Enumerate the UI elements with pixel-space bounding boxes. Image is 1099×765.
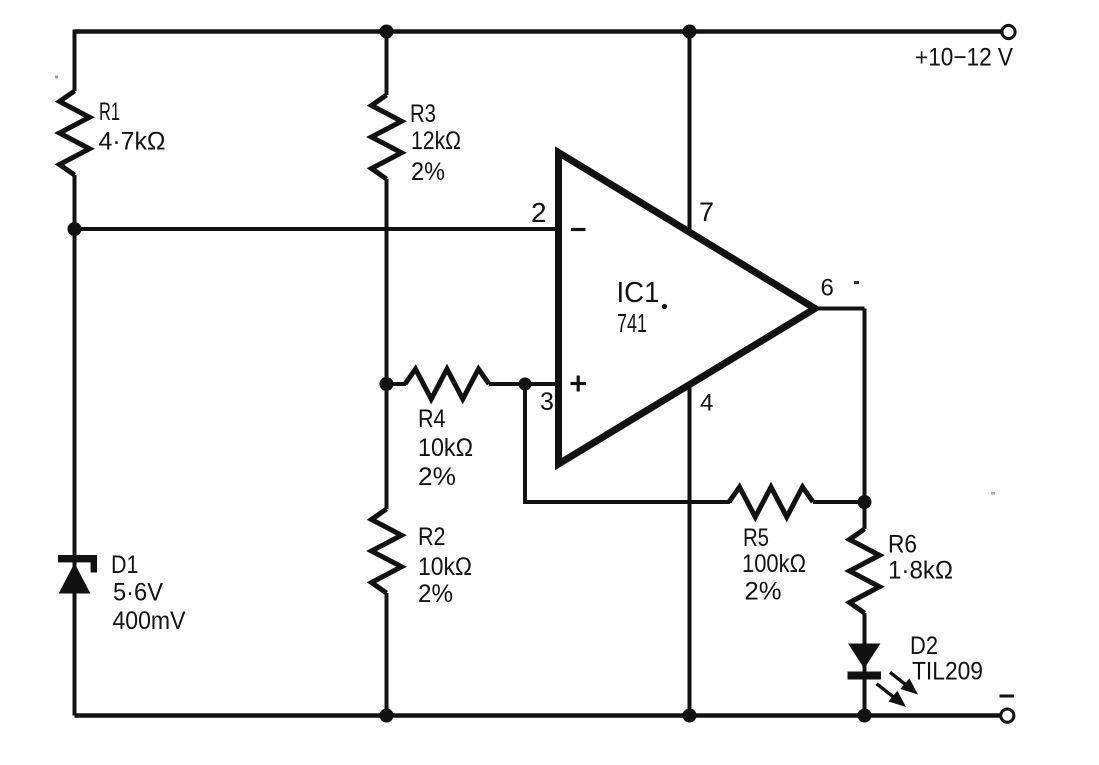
wire R4 to pin 3 — [489, 382, 559, 386]
svg-text:R6: R6 — [888, 531, 917, 559]
svg-text:D2: D2 — [910, 632, 938, 660]
node B junction R4/pin3/feedback — [519, 378, 532, 391]
wire R5 to output column — [813, 500, 865, 504]
svg-text:R4: R4 — [418, 405, 446, 433]
LED D2 cathode bar — [848, 672, 882, 680]
faint speck right of R5 — [991, 492, 995, 495]
wire output pin 6 — [815, 307, 865, 311]
wire node A to R2 — [385, 384, 389, 509]
svg-text:3: 3 — [540, 388, 554, 416]
svg-text:4: 4 — [700, 390, 713, 417]
svg-text:TIL209: TIL209 — [912, 658, 983, 686]
svg-text:100kΩ: 100kΩ — [742, 550, 806, 578]
op-amp U1 triangle — [559, 153, 816, 465]
resistor R5 — [729, 487, 813, 517]
LED D2 triangle — [848, 644, 881, 669]
node junction D2 / bottom rail — [858, 709, 872, 723]
wire inverting input (pin 2) horizontal — [75, 227, 560, 231]
svg-text:2: 2 — [531, 197, 547, 228]
svg-text:D1: D1 — [111, 551, 139, 579]
node A junction R3/R2/R4 — [380, 377, 394, 391]
svg-text:10kΩ: 10kΩ — [418, 553, 472, 581]
node junction top rail / R3 — [380, 25, 394, 39]
op-amp plus sign — [571, 382, 587, 385]
svg-text:R5: R5 — [743, 524, 769, 552]
svg-text:R3: R3 — [410, 100, 436, 128]
svg-text:2%: 2% — [745, 578, 782, 606]
wire feedback horizontal to R5 — [523, 500, 730, 504]
wire R6 to LED D2 — [863, 613, 867, 716]
wire output column down to R6 — [863, 309, 867, 530]
node junction R1/D1/pin2 — [68, 222, 82, 236]
svg-text:400mV: 400mV — [113, 607, 186, 635]
svg-text:5·6V: 5·6V — [113, 579, 163, 607]
wire pin 7 supply — [688, 30, 692, 236]
wire node A to R4 — [387, 382, 407, 386]
svg-text:2%: 2% — [418, 463, 456, 491]
label minus terminal — [1000, 695, 1015, 698]
wire R2 bottom to bottom rail — [385, 593, 389, 716]
resistor R2 — [372, 509, 402, 593]
svg-text:R1: R1 — [99, 98, 120, 126]
wire pin 4 to bottom rail — [688, 383, 692, 716]
svg-text:R2: R2 — [418, 523, 446, 551]
svg-text:IC1: IC1 — [617, 277, 660, 309]
svg-text:+10−12 V: +10−12 V — [915, 44, 1013, 72]
LED D2 light arrow 2 — [877, 684, 907, 707]
speck near pin 6 — [854, 281, 859, 284]
svg-text:4·7kΩ: 4·7kΩ — [99, 128, 166, 156]
svg-text:2%: 2% — [418, 580, 453, 608]
node junction R5/R6/output — [858, 495, 872, 509]
svg-text:741: 741 — [617, 308, 647, 338]
svg-text:7: 7 — [699, 197, 714, 227]
wire top supply rail — [75, 29, 1003, 33]
wire R3 column top — [385, 30, 389, 96]
node junction R2 / bottom rail — [380, 709, 394, 723]
svg-text:12kΩ: 12kΩ — [411, 127, 461, 155]
wire R3 bottom to node A — [385, 179, 389, 384]
resistor R3 — [372, 95, 402, 179]
svg-text:6: 6 — [821, 275, 834, 302]
svg-text:1·8kΩ: 1·8kΩ — [888, 557, 953, 585]
wire node B down — [523, 384, 527, 502]
resistor R4 — [405, 369, 489, 399]
svg-text:10kΩ: 10kΩ — [418, 434, 473, 462]
wire left rail vertical — [73, 30, 77, 92]
LED D2 light arrow 1 — [890, 672, 918, 694]
diode D1 zener cathode bar — [58, 555, 97, 562]
node junction top rail / pin 7 — [683, 25, 697, 39]
faint speck upper left — [55, 75, 58, 78]
label IC1 dot speck — [662, 304, 667, 309]
wire left rail below R1 — [73, 175, 77, 716]
node junction pin 4 / bottom rail — [683, 709, 697, 723]
wire bottom rail — [75, 713, 1002, 717]
diode D1 zener triangle — [59, 563, 91, 594]
resistor R1 — [60, 91, 90, 175]
resistor R6 — [850, 529, 880, 613]
terminal negative — [1001, 709, 1014, 722]
terminal +supply — [1002, 25, 1015, 38]
op-amp minus sign — [571, 228, 586, 231]
svg-text:2%: 2% — [411, 158, 445, 186]
